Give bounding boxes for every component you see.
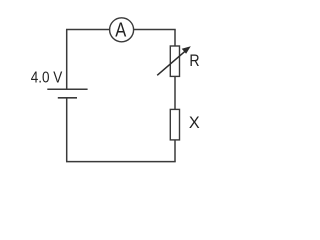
svg-text:R: R xyxy=(189,52,199,70)
svg-text:X: X xyxy=(189,114,200,132)
ammeter A1 xyxy=(110,18,134,42)
svg-text:A: A xyxy=(115,20,127,42)
wire left (battery negative plate down to bottom-left corner) xyxy=(66,98,68,162)
battery B1 positive plate (long) xyxy=(47,88,87,90)
wire top (ammeter to top-right corner) xyxy=(134,29,176,31)
wire right (rheostat R to resistor X) xyxy=(174,77,176,110)
wire right (resistor X down to bottom-right corner) xyxy=(174,140,176,161)
wire bottom xyxy=(66,161,176,163)
wire right (top corner down to rheostat R) xyxy=(174,30,176,47)
rheostat R arrow xyxy=(157,46,191,75)
wire top (battery branch to ammeter) xyxy=(66,29,109,31)
wire left (top corner down to battery positive plate) xyxy=(66,30,68,89)
battery B1 negative plate (short) xyxy=(58,97,77,99)
svg-text:4.0 V: 4.0 V xyxy=(31,69,63,86)
rheostat R body xyxy=(170,46,179,76)
resistor X body xyxy=(170,109,179,139)
